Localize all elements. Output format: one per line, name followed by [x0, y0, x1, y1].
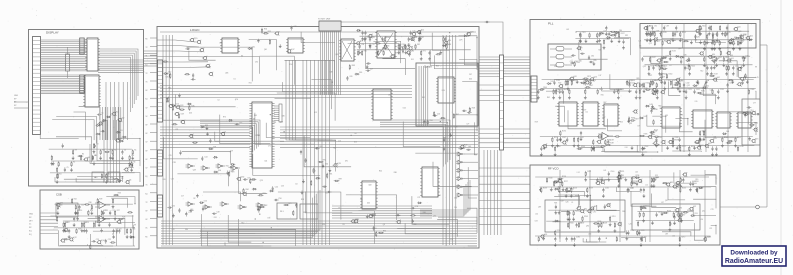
wire bus LCD segment lines (upper) — [41, 40, 88, 71]
wire rail — [49, 148, 132, 150]
svg-text:R175: R175 — [673, 80, 677, 82]
resistor R79 — [283, 203, 291, 206]
ground — [329, 168, 332, 172]
svg-text:C135: C135 — [561, 89, 565, 91]
resistor R39 — [97, 198, 102, 204]
svg-text:R82: R82 — [658, 105, 661, 107]
ground — [676, 146, 679, 150]
diode D8 — [117, 178, 123, 182]
ground — [748, 137, 751, 141]
svg-text:R202: R202 — [580, 137, 584, 139]
svg-text:D10: D10 — [168, 71, 171, 73]
capacitor C13 — [116, 229, 122, 234]
transistor Q59 — [657, 77, 665, 82]
svg-text:Downloaded by: Downloaded by — [730, 250, 778, 257]
svg-text:R159: R159 — [714, 73, 718, 75]
latch U7 — [360, 181, 378, 209]
transistor Q92 — [579, 209, 587, 214]
resistor R204 — [577, 146, 585, 149]
ground — [699, 40, 702, 44]
resistor R77 — [168, 97, 169, 103]
diode D49 — [698, 187, 703, 189]
resistor R197 — [600, 146, 606, 147]
svg-text:R43: R43 — [436, 66, 439, 68]
resistor R148 — [571, 80, 577, 86]
capacitor C92 — [726, 26, 729, 36]
logic gate U13d — [238, 205, 248, 209]
svg-text:C16: C16 — [338, 141, 341, 143]
resistor R96 — [378, 231, 386, 234]
diode D27 — [417, 202, 422, 204]
resistor R115 — [725, 32, 731, 38]
svg-text:D20: D20 — [442, 90, 445, 92]
crystal filter sub-box — [548, 44, 601, 70]
resistor R73 — [358, 50, 359, 56]
svg-text:R162: R162 — [570, 80, 574, 82]
resistor R16 — [57, 167, 58, 173]
svg-text:D1: D1 — [234, 79, 236, 81]
svg-text:Q79: Q79 — [459, 40, 462, 42]
resistor R95 — [376, 231, 377, 237]
ground — [93, 162, 96, 166]
svg-text:C17: C17 — [181, 195, 184, 197]
resistor R274 — [555, 230, 561, 236]
transistor Q37 — [353, 219, 358, 223]
resistor R68 — [382, 45, 390, 48]
svg-text:R84: R84 — [246, 189, 249, 191]
capacitor C65 — [300, 150, 302, 155]
svg-text:LOGIC: LOGIC — [190, 28, 200, 32]
svg-text:C163: C163 — [630, 188, 634, 190]
capacitor C174 — [571, 237, 573, 242]
resistor R105 — [654, 32, 655, 38]
svg-text:C1: C1 — [101, 112, 103, 114]
key unit connector J4 — [319, 21, 341, 31]
svg-text:R167: R167 — [589, 85, 593, 87]
svg-text:R8: R8 — [257, 135, 259, 137]
wire bus RF VCO vertical interconnects — [560, 170, 705, 242]
capacitor C128 — [635, 89, 642, 99]
resistor R13 — [104, 149, 112, 152]
ground — [206, 132, 209, 136]
resistor R209 — [734, 137, 741, 147]
svg-text:Q36: Q36 — [282, 116, 285, 118]
resistor R229 — [617, 177, 624, 187]
capacitor C164 — [643, 188, 646, 198]
svg-text:Q85: Q85 — [273, 122, 276, 124]
svg-text:C28: C28 — [454, 126, 457, 128]
svg-text:Q9: Q9 — [705, 66, 707, 68]
ground — [206, 126, 209, 130]
resistor R29 — [83, 222, 89, 232]
svg-text:R19: R19 — [695, 179, 698, 181]
svg-text:C59: C59 — [570, 61, 573, 63]
resistor R251 — [609, 216, 616, 226]
PLL right shield sub-box — [742, 99, 760, 145]
svg-text:C52: C52 — [205, 207, 208, 209]
wire bundle: bus near CPU upper left — [200, 120, 260, 152]
capacitor C70 — [408, 52, 410, 57]
ground — [100, 228, 103, 232]
svg-text:R163: R163 — [663, 74, 667, 76]
transistor Q32 — [637, 179, 642, 183]
svg-text:C37: C37 — [372, 44, 375, 46]
svg-text:R79: R79 — [288, 203, 291, 205]
ground — [690, 40, 693, 44]
svg-text:D11: D11 — [252, 46, 255, 48]
capacitor C130 — [553, 80, 560, 85]
scan artifact vertical line — [780, 0, 782, 275]
resistor R66 — [384, 37, 390, 47]
svg-text:Q94: Q94 — [615, 91, 618, 93]
transistor Q68 — [633, 109, 638, 113]
resistor R82 — [259, 205, 267, 208]
capacitor C74 — [466, 149, 471, 151]
svg-text:C21: C21 — [417, 197, 420, 199]
svg-text:C73: C73 — [711, 209, 714, 211]
transistor Q90 — [587, 209, 595, 214]
resistor R45 — [90, 244, 91, 250]
component cluster: crystal select parts — [570, 46, 596, 67]
wire bus between LOGIC and RF sections — [484, 150, 501, 235]
connector strip J3 — [80, 75, 85, 93]
svg-text:R39: R39 — [99, 198, 102, 200]
resistor R69 — [397, 44, 400, 54]
svg-text:L54: L54 — [535, 214, 538, 216]
resistor R5 — [111, 149, 116, 159]
capacitor C87 — [739, 40, 745, 50]
svg-text:C160: C160 — [610, 171, 614, 173]
resistor R206 — [605, 139, 611, 145]
diode D47 — [554, 187, 561, 191]
capacitor C75 — [458, 147, 466, 150]
svg-text:Q48: Q48 — [648, 26, 651, 28]
resistor R188 — [653, 119, 654, 125]
svg-text:D31: D31 — [604, 31, 607, 33]
svg-text:L5: L5 — [575, 32, 577, 34]
component band: VCO shield A parts — [548, 203, 622, 233]
svg-text:R218: R218 — [740, 146, 744, 148]
transistor Q29 — [242, 192, 247, 196]
svg-text:C5: C5 — [67, 167, 69, 169]
svg-text:C53: C53 — [281, 185, 284, 187]
svg-text:C118: C118 — [720, 89, 724, 91]
resistor R170 — [656, 89, 659, 99]
svg-text:C113: C113 — [663, 65, 667, 67]
resistor R92 — [318, 160, 326, 163]
svg-text:L45: L45 — [635, 171, 638, 173]
svg-text:Q27: Q27 — [416, 31, 419, 33]
capacitor C16 — [108, 222, 110, 227]
capacitor C82 — [580, 53, 585, 55]
resistor R85 — [250, 178, 256, 184]
svg-text:Q41: Q41 — [738, 26, 741, 28]
resistor R240 — [546, 177, 552, 183]
svg-text:R254: R254 — [600, 223, 604, 225]
svg-text:C3: C3 — [96, 143, 98, 145]
svg-text:R183: R183 — [751, 89, 755, 91]
resistor R99 — [729, 43, 735, 44]
diode D53 — [690, 213, 697, 217]
svg-text:D35: D35 — [443, 138, 446, 140]
resistor R180 — [653, 89, 654, 95]
capacitor C36 — [358, 44, 364, 54]
resistor R177 — [655, 82, 658, 92]
capacitor C127 — [693, 89, 700, 94]
svg-text:R42: R42 — [74, 198, 77, 200]
svg-text:R89: R89 — [636, 78, 639, 80]
svg-text:Q10: Q10 — [60, 203, 63, 205]
resistor R51 — [184, 74, 190, 75]
svg-text:R199: R199 — [675, 140, 679, 142]
wire bus LOGIC lower-right horizontal — [332, 206, 432, 218]
svg-text:D40: D40 — [706, 86, 709, 88]
label speckle across RF VCO — [535, 170, 714, 237]
resistor R214 — [592, 139, 595, 149]
capacitor C37 — [369, 44, 375, 49]
svg-text:C134: C134 — [631, 80, 635, 82]
diode D4 — [119, 140, 124, 142]
resistor R100 — [698, 25, 701, 35]
wire bus CSB inputs — [40, 213, 58, 233]
svg-text:R90: R90 — [322, 224, 325, 226]
svg-text:Q67: Q67 — [589, 80, 592, 82]
capacitor C6 — [92, 155, 97, 160]
svg-text:C94: C94 — [255, 61, 258, 63]
wire bus LOGIC mid horizontal B right — [280, 127, 478, 147]
resistor R155 — [675, 80, 683, 83]
svg-text:R56: R56 — [264, 29, 267, 31]
svg-text:R49: R49 — [468, 146, 471, 148]
transistor Q23 — [466, 31, 474, 36]
capacitor C175 — [627, 230, 634, 235]
svg-text:Q58: Q58 — [368, 185, 371, 187]
transistor Q91 — [589, 206, 597, 211]
transistor Q61 — [569, 76, 577, 81]
resistor R12 — [93, 143, 96, 153]
capacitor C114 — [684, 65, 691, 70]
left edge connector J7 — [158, 195, 163, 217]
svg-text:C23: C23 — [96, 239, 99, 241]
capacitor C76 — [371, 214, 376, 216]
resistor R269 — [641, 206, 649, 209]
svg-text:C61: C61 — [374, 228, 377, 230]
svg-text:R101: R101 — [702, 25, 706, 27]
resistor R256 — [568, 222, 574, 228]
resistor R207 — [591, 146, 592, 152]
capacitor C35 — [404, 44, 410, 54]
resistor R74 — [179, 109, 185, 110]
capacitor C121 — [561, 89, 568, 94]
capacitor C55 — [295, 203, 297, 208]
capacitor C149 — [756, 113, 761, 115]
ground — [631, 146, 634, 150]
capacitor C143 — [540, 146, 543, 156]
transistor Q86 — [600, 180, 608, 185]
ground — [52, 162, 55, 166]
resistor R87 — [192, 142, 198, 143]
resistor R125 — [579, 33, 582, 43]
transistor Q88 — [682, 172, 687, 176]
svg-text:Q41: Q41 — [264, 49, 267, 51]
svg-text:R108: R108 — [715, 34, 719, 36]
capacitor C112 — [713, 59, 716, 69]
ground — [279, 44, 282, 48]
wire mesh: RF VCO interior wiring — [546, 172, 716, 242]
resistor R248 — [601, 222, 607, 228]
resistor R28 — [88, 210, 93, 216]
svg-text:R116: R116 — [740, 40, 744, 42]
svg-text:GND: GND — [14, 95, 19, 97]
svg-text:R85: R85 — [252, 179, 255, 181]
svg-text:C30: C30 — [294, 26, 297, 28]
transistor Q55 — [737, 82, 742, 86]
svg-text:R240: R240 — [549, 178, 553, 180]
svg-text:C51: C51 — [694, 39, 697, 41]
svg-text:D4: D4 — [295, 184, 297, 186]
diode D1 — [96, 123, 103, 126]
resistor R21 — [98, 216, 101, 226]
svg-text:L43: L43 — [566, 29, 569, 31]
op-amp U10 — [95, 202, 110, 209]
capacitor C43 — [361, 31, 364, 41]
wire bundle: bus right mid group — [380, 120, 450, 167]
resistor R166 — [652, 80, 658, 86]
svg-text:R18: R18 — [131, 155, 134, 157]
resistor R183 — [748, 89, 754, 95]
resistor R106 — [711, 25, 712, 31]
capacitor C148 — [715, 146, 718, 156]
svg-text:R267: R267 — [681, 215, 685, 217]
resistor R223 — [662, 183, 668, 184]
svg-text:R251: R251 — [612, 216, 616, 218]
resistor R231 — [617, 171, 624, 181]
svg-text:C15: C15 — [169, 155, 172, 157]
transistor Q70 — [704, 143, 712, 148]
logic gate U12d — [231, 166, 241, 170]
resistor R165 — [539, 87, 547, 90]
resistor R191 — [573, 137, 576, 147]
resistor R131 — [669, 50, 676, 60]
svg-text:C7: C7 — [730, 60, 732, 62]
component cluster: LOGIC bottom right parts — [396, 202, 423, 224]
svg-text:D44: D44 — [726, 131, 729, 133]
capacitor C23 — [91, 239, 99, 242]
resistor R32 — [126, 228, 129, 238]
capacitor C161 — [682, 178, 684, 183]
capacitor C102 — [598, 32, 601, 42]
svg-text:R121: R121 — [675, 32, 679, 34]
transistor Q85 — [665, 182, 673, 187]
svg-text:R65: R65 — [380, 50, 383, 52]
resistor R1 — [131, 149, 136, 159]
transistor Q13 — [60, 238, 65, 242]
svg-text:D43: D43 — [650, 104, 653, 106]
component cluster: LOGIC upper-left discrete parts — [162, 38, 197, 81]
component cluster: parts between U22 and U23 — [627, 104, 657, 125]
logic gate U13c — [220, 202, 230, 206]
ground — [593, 62, 596, 66]
component cluster: LOGIC center parts — [300, 146, 332, 183]
crystal X3 — [550, 63, 572, 67]
svg-text:C91: C91 — [713, 136, 716, 138]
capacitor C84 — [570, 61, 578, 64]
resistor R10 — [80, 155, 81, 161]
ground — [666, 146, 669, 150]
capacitor C137 — [711, 146, 714, 156]
resistor R168 — [556, 89, 562, 95]
resistor R90 — [311, 180, 312, 186]
component cluster: CPU crystal and reset parts — [236, 177, 297, 216]
svg-text:C73: C73 — [171, 179, 174, 181]
capacitor C133 — [641, 83, 643, 88]
shift register U5 — [375, 31, 397, 58]
resistor R63 — [446, 44, 451, 50]
resistor R149 — [745, 73, 746, 79]
capacitor C57 — [258, 208, 260, 213]
resistor R171 — [697, 90, 705, 93]
capacitor C46 — [227, 171, 233, 176]
svg-text:C21: C21 — [325, 193, 328, 195]
resistor R265 — [640, 207, 646, 208]
wire rail — [542, 145, 754, 147]
capacitor C103 — [622, 39, 625, 49]
ribbon connector J8 — [500, 55, 504, 150]
svg-text:R72: R72 — [649, 75, 652, 77]
ground — [651, 105, 654, 109]
resistor R36 — [84, 202, 92, 205]
transistor Q22 — [408, 46, 413, 50]
svg-text:R150: R150 — [669, 74, 673, 76]
svg-text:R231: R231 — [620, 171, 624, 173]
resistor R110 — [720, 25, 721, 31]
svg-text:R94: R94 — [405, 48, 408, 50]
resistor R254 — [597, 222, 604, 232]
svg-text:C136: C136 — [654, 109, 658, 111]
svg-text:R227: R227 — [564, 181, 568, 183]
wire bus LOGIC to RF VCO interconnect — [479, 168, 530, 225]
svg-text:C4: C4 — [217, 99, 219, 101]
svg-text:L45: L45 — [604, 170, 607, 172]
svg-text:C111: C111 — [735, 65, 739, 67]
resistor R52 — [170, 73, 171, 79]
svg-text:C44: C44 — [264, 161, 267, 163]
svg-text:R63: R63 — [448, 44, 451, 46]
capacitor C14 — [85, 229, 87, 234]
capacitor C45 — [179, 150, 181, 155]
buffer gate U14c — [456, 168, 465, 172]
svg-text:R128: R128 — [615, 33, 619, 35]
capacitor C4 — [121, 150, 126, 160]
capacitor C158 — [640, 188, 642, 193]
resistor R84 — [243, 188, 249, 194]
svg-text:C48: C48 — [216, 212, 219, 214]
svg-text:Q51: Q51 — [731, 58, 734, 60]
reset IC U2 — [220, 38, 240, 53]
svg-text:C144: C144 — [644, 146, 648, 148]
svg-text:C152: C152 — [747, 113, 751, 115]
transistor Q97 — [689, 206, 697, 211]
transistor Q49 — [726, 51, 731, 55]
resistor R161 — [649, 82, 655, 88]
capacitor C168 — [555, 205, 557, 210]
svg-text:L26: L26 — [629, 224, 632, 226]
resistor R255 — [567, 210, 570, 220]
svg-text:D3: D3 — [120, 130, 122, 132]
svg-text:C175: C175 — [630, 230, 634, 232]
wire bus key connector downward — [321, 31, 341, 95]
wire bus LOGIC left vertical — [163, 35, 172, 245]
